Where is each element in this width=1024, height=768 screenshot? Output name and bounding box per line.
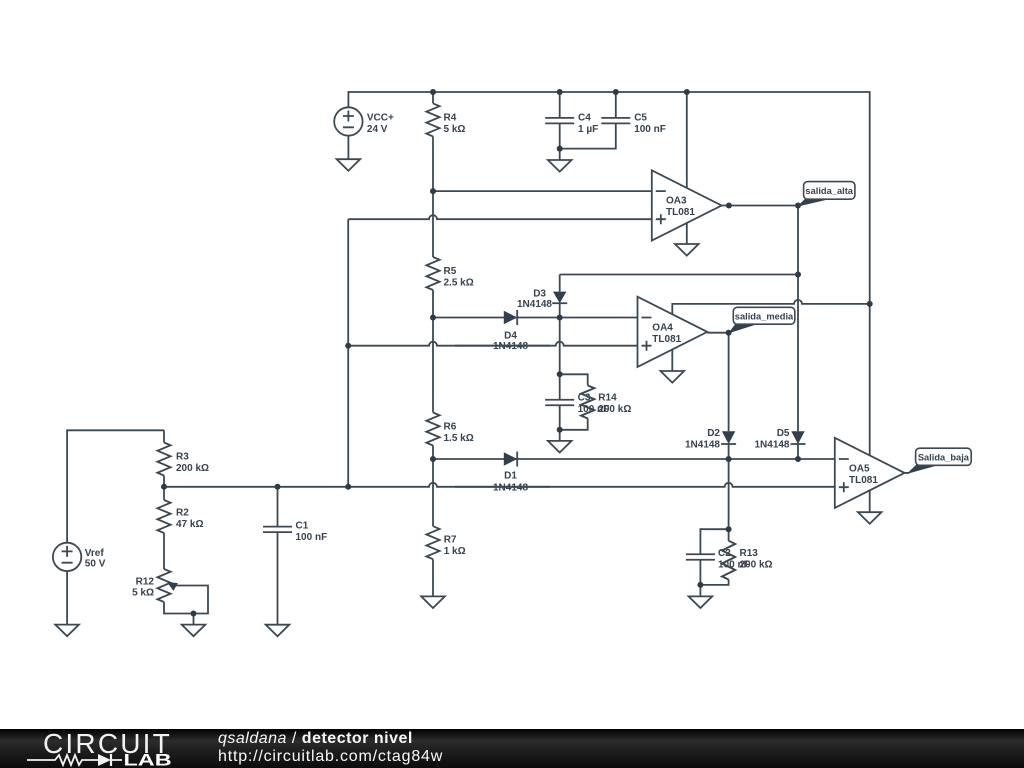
wire C2/R13 top branch: [700, 529, 728, 554]
capacitor C5: [601, 118, 630, 124]
svg-text:2.5 kΩ: 2.5 kΩ: [444, 278, 474, 289]
wire OA5 output stub: [905, 472, 910, 474]
wire column x=433 between R5 and R6: [432, 290, 434, 413]
resistor R7: [426, 526, 439, 559]
ground below R7: [421, 596, 445, 608]
ground below OA4: [661, 371, 685, 383]
node junction C3-R14 top: [557, 371, 563, 377]
node junction OA3 V+/VCC rail: [684, 89, 690, 95]
resistor R2: [157, 500, 170, 533]
svg-text:D4: D4: [504, 331, 517, 342]
node junction OA4 V+ supply tap: [867, 301, 873, 307]
svg-text:D1: D1: [504, 471, 517, 482]
svg-text:5 kΩ: 5 kΩ: [132, 588, 154, 599]
node junction mid column/OA4 non-inverting net: [345, 343, 351, 349]
voltage source VCC+: [334, 107, 362, 135]
wire R2 to R12: [163, 533, 165, 569]
svg-text:24 V: 24 V: [367, 124, 388, 135]
wire OA4 V+ supply run (hops x=798): [672, 300, 869, 315]
wire OA5 non-inverting input (hops x=433 and x=728.6): [164, 483, 835, 487]
svg-text:Salida_baja: Salida_baja: [918, 452, 970, 462]
svg-text:OA3: OA3: [666, 196, 687, 207]
node junction C4/VCC rail: [557, 89, 563, 95]
svg-text:100 nF: 100 nF: [634, 124, 666, 135]
resistor R14: [581, 385, 594, 418]
wire column x=433 between R6 and R7: [432, 446, 434, 527]
wire OA3 non-inverting input (hops x=433): [348, 215, 652, 219]
capacitor C1: [263, 527, 292, 533]
svg-text:LAB: LAB: [124, 752, 172, 768]
CircuitLab logo: [0, 729, 200, 768]
svg-text:OA4: OA4: [652, 323, 673, 334]
ground below C1: [266, 625, 290, 637]
capacitor C4: [545, 118, 574, 124]
net flag salida_alta: [797, 198, 829, 207]
resistor R13 restroke over C2 value text: [722, 541, 735, 580]
svg-text:200 kΩ: 200 kΩ: [740, 560, 773, 571]
svg-text:TL081: TL081: [666, 207, 695, 218]
node junction mid column/Vx net: [345, 484, 351, 490]
resistor R14 restroke over C3 value text: [581, 385, 594, 418]
svg-text:C5: C5: [634, 112, 647, 123]
wire C5 bottom lead: [560, 123, 616, 148]
svg-text:C4: C4: [578, 112, 591, 123]
wire C3 leads: [559, 374, 561, 441]
node junction OA4 output/salida_media attach: [726, 330, 732, 336]
footer author/title text: [218, 731, 413, 747]
svg-text:R14: R14: [598, 393, 617, 404]
svg-text:1 kΩ: 1 kΩ: [444, 546, 466, 557]
node junction D2 cathode/OA5 inverting net: [726, 456, 732, 462]
capacitor C2: [686, 554, 715, 560]
wire C5 top lead: [615, 92, 617, 118]
svg-text:R3: R3: [176, 452, 189, 463]
wire VCC+ rail top: [348, 92, 869, 456]
node junction OA3 output pin: [726, 203, 732, 209]
wire column x=433 between R4 and R5: [432, 136, 434, 257]
svg-text:OA5: OA5: [849, 464, 870, 475]
wire mid column x=348.2: [347, 219, 349, 487]
svg-text:47 kΩ: 47 kΩ: [176, 519, 203, 530]
op-amp OA4 V- pin: [671, 350, 673, 371]
svg-text:R13: R13: [740, 548, 759, 559]
wire Vref top to R3: [67, 430, 164, 542]
wire VCC+ source bottom lead: [347, 136, 349, 160]
node junction R4-R5/OA3 inverting input: [430, 188, 436, 194]
potentiometer R12: [157, 569, 170, 602]
wire OA3 V+ pin drop: [686, 92, 688, 190]
net flag salida_media: [728, 323, 757, 333]
svg-text:1N4148: 1N4148: [493, 482, 528, 493]
ground below R12: [182, 625, 206, 637]
wire C1 bottom lead: [277, 532, 279, 625]
svg-text:50 V: 50 V: [85, 558, 106, 569]
svg-text:1.5 kΩ: 1.5 kΩ: [444, 433, 474, 444]
svg-text:R5: R5: [444, 266, 457, 277]
wire OA4 output to D2 column: [707, 333, 728, 432]
voltage source Vref: [53, 543, 81, 571]
node junction D3 cathode/D4 net: [557, 315, 563, 321]
R12 wiper arrowhead: [167, 582, 178, 591]
node junction feedback top run/D5 column: [795, 272, 801, 278]
op-amp OA5: [835, 438, 905, 508]
node junction R5-R6/D4 anode net: [430, 315, 436, 321]
op-amp OA4: [638, 297, 708, 367]
svg-text:C1: C1: [296, 521, 309, 532]
wire C1 top lead: [277, 487, 279, 527]
resistor R13: [722, 541, 735, 580]
wire C4 top lead: [559, 92, 561, 118]
diode D3: [553, 292, 566, 304]
svg-text:R12: R12: [136, 577, 155, 588]
resistor R3: [157, 443, 170, 476]
wire R12 ground stub: [193, 614, 195, 625]
wire D3 cathode down to C3/R14: [559, 303, 561, 374]
svg-text:1N4148: 1N4148: [517, 299, 552, 310]
node junction R12 wiper ground tap: [191, 611, 197, 617]
wire column x=433 top lead: [432, 92, 434, 103]
diode D2: [722, 431, 735, 444]
node junction R4/VCC rail: [430, 89, 436, 95]
svg-text:100 nF: 100 nF: [296, 532, 328, 543]
logo resistor-diode glyph: [27, 755, 122, 765]
wire R7 to ground: [432, 559, 434, 596]
resistor R4: [426, 103, 439, 136]
op-amp OA3: [652, 170, 722, 240]
wire restroke over D1 value text: [455, 486, 550, 488]
svg-text:Vref: Vref: [85, 548, 105, 559]
logo wordmark LAB: [124, 752, 172, 768]
wire OA4 inverting input / D4 net: [433, 317, 638, 319]
wire restroke over D4 value text: [455, 345, 550, 347]
svg-text:R7: R7: [444, 535, 457, 546]
svg-text:VCC+: VCC+: [367, 112, 394, 123]
wire R13 leads: [700, 529, 728, 585]
resistor R5: [426, 257, 439, 290]
svg-text:R2: R2: [176, 508, 189, 519]
diode D1: [504, 452, 517, 465]
svg-text:TL081: TL081: [652, 334, 681, 345]
node junction C1/Vx net: [275, 484, 281, 490]
wire R12 bottom and wiper loop: [164, 586, 208, 614]
node junction C2-R13 bottom: [697, 582, 703, 588]
ground below OA5: [858, 512, 882, 524]
diode D4: [504, 311, 517, 324]
node junction R3-R2/Vx net: [161, 484, 167, 490]
wire OA4 non-inverting input (hops x=433 and x=559.7): [348, 342, 637, 346]
net flag Salida_baja: [907, 464, 939, 474]
svg-text:R6: R6: [444, 421, 457, 432]
svg-text:200 kΩ: 200 kΩ: [176, 463, 209, 474]
wire OA3 inverting input: [433, 190, 652, 192]
wire D3 anode lead: [559, 275, 561, 292]
footer url text: [218, 749, 443, 765]
svg-text:1N4148: 1N4148: [754, 439, 789, 450]
svg-text:1N4148: 1N4148: [685, 439, 720, 450]
ground below C3: [548, 441, 572, 453]
node junction R6-R7/OA5 inverting net: [430, 456, 436, 462]
wire R14 bottom branch: [560, 418, 588, 429]
node junction C3-R14 bottom: [557, 427, 563, 433]
node junction C5/VCC rail: [613, 89, 619, 95]
ground below Vref: [55, 625, 79, 637]
svg-text:R4: R4: [444, 112, 457, 123]
svg-text:5 kΩ: 5 kΩ: [444, 124, 466, 135]
wire R3 top lead: [163, 430, 165, 442]
ground below VCC+: [337, 159, 361, 171]
ground below C4: [548, 160, 572, 172]
wire C4 bottom lead to ground: [559, 123, 561, 160]
wire R3 to R2: [163, 476, 165, 501]
svg-text:D3: D3: [533, 288, 546, 299]
wire OA5 inverting input / D1 net: [433, 458, 835, 460]
wire C2 bottom lead: [699, 560, 701, 597]
svg-text:TL081: TL081: [849, 475, 878, 486]
node node salida_alta attach: [795, 203, 801, 209]
wire D2 cathode down to C2/R13: [728, 444, 730, 529]
wire Vref source bottom lead: [66, 571, 68, 625]
op-amp OA5 V- pin: [869, 489, 871, 512]
ground below OA3: [675, 244, 699, 256]
diode D5: [791, 431, 804, 444]
svg-text:1 µF: 1 µF: [578, 124, 598, 135]
wire OA3 output to D5 column: [722, 206, 798, 432]
op-amp OA3 V- pin: [686, 222, 688, 244]
svg-text:D2: D2: [707, 428, 720, 439]
capacitor C3: [545, 400, 574, 406]
node junction C2-R13 top: [726, 526, 732, 532]
wire OA3 feedback top run: [560, 274, 798, 276]
node junction D5 cathode/OA5 inverting net: [795, 456, 801, 462]
svg-text:200 kΩ: 200 kΩ: [598, 404, 631, 415]
wire D5 cathode lead: [797, 444, 799, 459]
node junction C4-C5 ground link: [557, 146, 563, 152]
svg-text:salida_alta: salida_alta: [805, 186, 853, 196]
ground below C2: [689, 596, 713, 608]
resistor R6: [426, 413, 439, 446]
wire C3/R14 top branch: [560, 374, 588, 385]
svg-text:salida_media: salida_media: [735, 311, 794, 321]
svg-text:D5: D5: [777, 428, 790, 439]
footer bar: [0, 729, 1024, 768]
